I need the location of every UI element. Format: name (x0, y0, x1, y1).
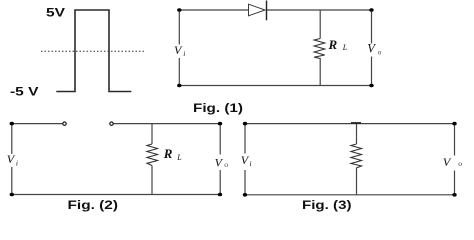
svg-text:o: o (224, 160, 228, 169)
svg-text:i: i (16, 159, 18, 168)
svg-text:i: i (183, 49, 185, 58)
svg-text:-5 V: -5 V (10, 85, 39, 99)
svg-text:Fig. (1): Fig. (1) (193, 101, 243, 115)
svg-text:V: V (367, 42, 376, 56)
svg-text:L: L (342, 43, 348, 52)
svg-text:Fig. (3): Fig. (3) (302, 198, 352, 212)
svg-text:R: R (328, 37, 338, 52)
svg-text:5V: 5V (46, 5, 65, 19)
svg-text:L: L (176, 153, 182, 162)
svg-text:R: R (163, 146, 173, 161)
svg-text:i: i (250, 159, 252, 168)
svg-text:o: o (458, 159, 462, 168)
svg-text:o: o (378, 48, 382, 57)
svg-text:Fig. (2): Fig. (2) (68, 198, 119, 212)
